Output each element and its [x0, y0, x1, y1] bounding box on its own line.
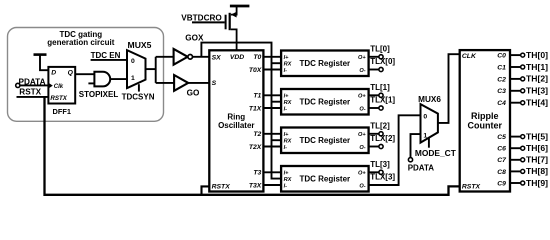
svg-text:TLX[3]: TLX[3] — [370, 173, 395, 182]
svg-text:TLX[0]: TLX[0] — [370, 57, 395, 66]
wire: DFF1 Q to AND gate — [75, 73, 94, 75]
port TL[0] — [369, 56, 379, 58]
wire: RO T0 to register — [263, 56, 281, 58]
svg-text:I-: I- — [284, 184, 288, 190]
flip-flop DFF1 — [48, 67, 75, 104]
block: TDC Register 2 — [281, 89, 369, 115]
svg-text:I+: I+ — [284, 170, 290, 176]
enclosure: TDC gating generation circuit — [8, 28, 164, 122]
svg-text:C9: C9 — [497, 180, 506, 187]
svg-text:Clk: Clk — [54, 84, 64, 90]
wire: RO T3 to register — [263, 171, 281, 173]
svg-text:RSTX: RSTX — [19, 88, 41, 97]
svg-text:I+: I+ — [284, 93, 290, 99]
svg-text:T0: T0 — [253, 54, 261, 61]
block: TDC Register 1 — [281, 51, 369, 77]
svg-text:1: 1 — [423, 132, 427, 139]
svg-text:RX: RX — [284, 139, 293, 145]
wire: AND output to MUX5 input 1 — [110, 78, 127, 80]
svg-text:O-: O- — [359, 183, 365, 189]
svg-text:I-: I- — [284, 145, 288, 151]
svg-text:S: S — [212, 80, 217, 87]
svg-text:TLX[2]: TLX[2] — [370, 134, 395, 143]
AND gate (STOPIXEL gating) — [94, 72, 110, 87]
svg-text:RX: RX — [284, 62, 293, 68]
block: Ripple Counter — [460, 50, 510, 191]
svg-text:O-: O- — [359, 145, 365, 151]
svg-text:TL[3]: TL[3] — [370, 160, 390, 169]
net MODE_CT (MUX6 select) — [428, 138, 430, 148]
svg-text:MUX5: MUX5 — [128, 40, 152, 50]
stub: RX register2 — [272, 101, 282, 103]
svg-text:TDCSYN: TDCSYN — [122, 92, 155, 101]
port TH[9] — [510, 182, 521, 184]
svg-text:1: 1 — [131, 75, 135, 82]
svg-text:RX: RX — [284, 100, 293, 106]
svg-text:GOX: GOX — [185, 33, 204, 42]
svg-text:O+: O+ — [358, 93, 366, 99]
stub: RX register1 — [272, 62, 282, 64]
mux MUX5 — [127, 50, 146, 88]
wire: RSTX to DFF1 — [17, 96, 49, 98]
port TL[1] — [369, 94, 379, 96]
svg-text:TH[5]: TH[5] — [526, 131, 548, 141]
svg-text:CLK: CLK — [462, 53, 477, 60]
svg-text:TH[0]: TH[0] — [526, 50, 548, 60]
svg-text:T1X: T1X — [249, 105, 262, 112]
svg-text:VDD: VDD — [230, 54, 244, 61]
stub: RX register3 — [272, 139, 282, 141]
port TH[3] — [510, 90, 521, 92]
svg-text:Q: Q — [68, 70, 74, 77]
wire: GO to RO S — [188, 82, 209, 84]
block: TDC Register 4 — [281, 166, 369, 192]
port TLX[0] — [369, 69, 379, 71]
stub: STOPIXEL input — [88, 82, 94, 84]
port TH[6] — [510, 147, 521, 149]
svg-text:C4: C4 — [497, 100, 506, 107]
port TL[3] — [369, 171, 379, 173]
svg-text:TLX[1]: TLX[1] — [370, 96, 395, 105]
svg-text:Oscillater: Oscillater — [218, 121, 254, 130]
transistor (VBTDCRO bias) — [225, 15, 227, 30]
port TL[2] — [369, 133, 379, 135]
svg-text:C2: C2 — [497, 76, 506, 83]
wire: RO T2 to register — [263, 133, 281, 135]
svg-text:RSTX: RSTX — [212, 184, 231, 191]
svg-text:GO: GO — [187, 89, 200, 98]
svg-text:MUX6: MUX6 — [418, 95, 441, 104]
svg-text:O-: O- — [359, 106, 365, 112]
wire: GOX to RO SX — [193, 56, 210, 58]
buffer (GO driver) — [174, 75, 188, 91]
svg-text:C3: C3 — [497, 88, 506, 95]
wire: RO T3X to register — [263, 184, 281, 186]
wire: RO T0X to register — [263, 69, 281, 71]
svg-text:T0X: T0X — [249, 67, 262, 74]
svg-text:VBTDCRO: VBTDCRO — [181, 13, 222, 22]
svg-text:I-: I- — [284, 68, 288, 74]
rail RSTX (bottom) — [45, 97, 460, 195]
inverter (GOX driver) — [174, 49, 188, 65]
svg-text:MODE_CT: MODE_CT — [415, 148, 457, 158]
svg-text:TH[7]: TH[7] — [526, 155, 548, 165]
power bar VDD — [230, 5, 250, 8]
svg-text:I+: I+ — [284, 132, 290, 138]
svg-text:C8: C8 — [497, 169, 506, 176]
svg-text:T1: T1 — [253, 93, 261, 100]
svg-text:Counter: Counter — [468, 120, 503, 130]
wire: RO T2X to register — [263, 146, 281, 148]
wire: MUX5 output branch — [146, 68, 156, 70]
svg-text:TH[9]: TH[9] — [526, 178, 548, 188]
svg-text:C6: C6 — [497, 146, 506, 153]
svg-text:T3: T3 — [253, 170, 261, 177]
svg-text:D: D — [51, 70, 56, 77]
svg-text:C5: C5 — [497, 134, 506, 141]
svg-text:TDC Register: TDC Register — [299, 98, 350, 107]
block: TDC Register 3 — [281, 128, 369, 154]
svg-text:Ripple: Ripple — [471, 111, 499, 121]
svg-text:O+: O+ — [358, 132, 366, 138]
svg-text:O+: O+ — [358, 55, 366, 61]
svg-text:PDATA: PDATA — [408, 163, 435, 172]
wire: PDATA to MUX6 input 1 — [411, 134, 421, 158]
svg-text:T2: T2 — [253, 131, 261, 138]
svg-text:TL[2]: TL[2] — [370, 121, 390, 130]
svg-text:TH[6]: TH[6] — [526, 143, 548, 153]
port PDATA (counter mode) — [408, 158, 412, 162]
port TH[5] — [510, 136, 521, 138]
svg-text:I-: I- — [284, 107, 288, 113]
port PDATA — [16, 83, 20, 87]
block: Ring Oscillator — [209, 50, 263, 191]
port TLX[2] — [369, 146, 379, 148]
wire: RO T1X to register — [263, 107, 281, 109]
port TLX[1] — [369, 107, 379, 109]
port TH[0] — [510, 54, 521, 56]
svg-text:C7: C7 — [497, 157, 507, 164]
net TDCSYN (MUX5 select) — [138, 84, 140, 91]
svg-text:TDC EN: TDC EN — [91, 51, 121, 60]
wire: RO T1 to register — [263, 94, 281, 96]
wire: MUX6 output to counter CLK — [438, 54, 460, 123]
port TH[1] — [510, 66, 521, 68]
svg-text:generation circuit: generation circuit — [47, 38, 114, 47]
svg-text:STOPIXEL: STOPIXEL — [79, 90, 119, 99]
svg-text:TDC Register: TDC Register — [299, 136, 350, 145]
svg-text:0: 0 — [131, 58, 135, 65]
wire: tie bar to DFF1 D — [40, 55, 48, 71]
svg-text:TH[2]: TH[2] — [526, 74, 548, 84]
port TH[7] — [510, 159, 521, 161]
wire: TLX[3] to MUX6 input 0 — [369, 115, 421, 185]
wire: GOX to RX bus — [201, 43, 281, 179]
svg-text:O-: O- — [359, 68, 365, 74]
svg-text:T3X: T3X — [249, 182, 262, 189]
mux MUX6 — [421, 104, 438, 143]
svg-text:TDC Register: TDC Register — [299, 175, 350, 184]
svg-text:SX: SX — [212, 54, 222, 61]
svg-text:DFF1: DFF1 — [53, 107, 71, 116]
svg-text:TL[1]: TL[1] — [370, 83, 390, 92]
svg-text:T2X: T2X — [249, 144, 262, 151]
svg-text:0: 0 — [423, 114, 427, 121]
svg-text:O+: O+ — [358, 170, 366, 176]
svg-text:C1: C1 — [497, 64, 506, 71]
svg-text:C0: C0 — [497, 53, 506, 60]
stub: RSTX to Ring Oscillator — [202, 186, 210, 194]
svg-text:TDC Register: TDC Register — [299, 59, 350, 68]
port TH[2] — [510, 78, 521, 80]
svg-text:TH[8]: TH[8] — [526, 166, 548, 176]
svg-text:RSTX: RSTX — [50, 95, 67, 102]
logic-high tie bar (DFF1 D input) — [34, 53, 47, 56]
svg-text:I+: I+ — [284, 55, 290, 61]
svg-text:TH[3]: TH[3] — [526, 86, 548, 96]
port TH[4] — [510, 102, 521, 104]
svg-text:RSTX: RSTX — [462, 184, 481, 191]
svg-text:TL[0]: TL[0] — [370, 44, 390, 53]
wire: PDATA to DFF1 Clk — [20, 84, 49, 86]
svg-text:TH[1]: TH[1] — [526, 62, 548, 72]
svg-text:TH[4]: TH[4] — [526, 98, 548, 108]
port TH[8] — [510, 170, 521, 172]
svg-text:RX: RX — [284, 177, 293, 183]
